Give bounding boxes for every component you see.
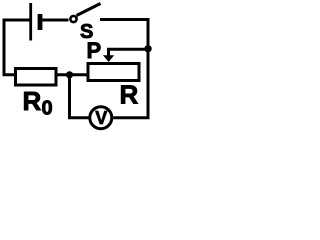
wire: wiper to right rail: [109, 49, 149, 56]
node junction between R0 and potentiometer: [66, 71, 73, 78]
resistor R0 body: [16, 69, 57, 86]
svg-text:P: P: [87, 38, 102, 63]
switch S blade (open, slanted up-right): [77, 4, 101, 16]
svg-text:V: V: [95, 108, 107, 128]
wire: top-left from battery to left rail, down left side, into R0: [4, 20, 31, 75]
potentiometer R body (track box): [88, 64, 139, 81]
wire: switch to top-right corner, down right rail, along bottom to voltmeter: [100, 20, 148, 118]
svg-text:R: R: [120, 80, 139, 110]
wiper arrowhead P (points down onto track): [103, 55, 114, 62]
svg-text:0: 0: [42, 98, 53, 120]
battery B1 long plate: [29, 3, 32, 41]
battery B1 short thick plate: [38, 14, 43, 30]
node junction on right rail (wiper tap): [144, 45, 151, 52]
svg-text:R: R: [23, 86, 42, 116]
wire: battery to switch pivot: [42, 19, 68, 22]
switch S pivot circle: [70, 16, 76, 22]
wire: R0 to potentiometer left terminal: [57, 73, 87, 76]
voltmeter V circle: [90, 107, 112, 129]
wire: junction down to voltmeter left terminal: [70, 75, 89, 118]
